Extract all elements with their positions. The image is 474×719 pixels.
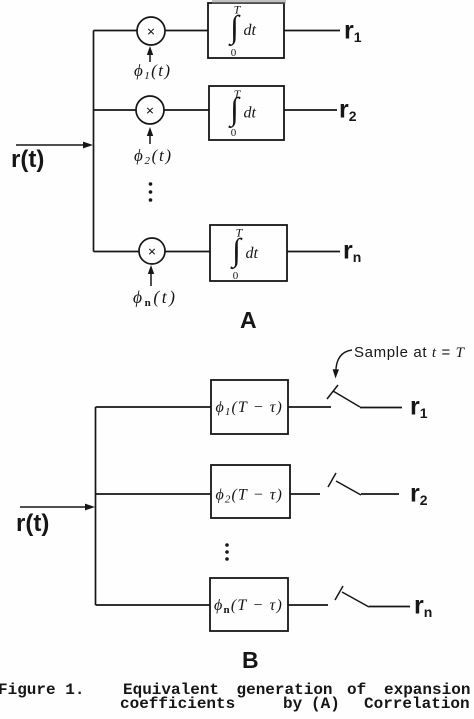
svg-text:A: A bbox=[240, 307, 257, 333]
svg-text:by: by bbox=[283, 695, 303, 713]
wire: M3 to integrator 3 bbox=[165, 251, 210, 253]
node: input bus of B bbox=[95, 407, 97, 605]
wire: bus to multiplier M3 bbox=[94, 251, 140, 253]
svg-text:ϕ2(T − τ): ϕ2(T − τ) bbox=[216, 487, 284, 506]
node: ellipsis dots (B) bbox=[225, 543, 229, 561]
filter box B1 bbox=[211, 380, 288, 434]
wire: bus to filter box B2 bbox=[96, 493, 212, 495]
switch S2 bbox=[328, 473, 361, 495]
svg-text:Correlation: Correlation bbox=[364, 695, 470, 713]
integrator box U2 bbox=[209, 86, 284, 140]
switch S1 bbox=[327, 385, 360, 407]
svg-text:ϕn(t): ϕn(t) bbox=[133, 287, 175, 309]
svg-text:(A): (A) bbox=[311, 695, 340, 713]
node: input bus of A bbox=[93, 31, 95, 252]
svg-text:Sample at t = T: Sample at t = T bbox=[354, 344, 466, 361]
svg-text:r1: r1 bbox=[410, 393, 428, 422]
svg-text:dt: dt bbox=[246, 245, 259, 262]
svg-text:ϕ2(t): ϕ2(t) bbox=[134, 146, 171, 167]
svg-text:0: 0 bbox=[231, 47, 237, 59]
label integral T 0 dt (box 2) bbox=[228, 87, 256, 139]
label integral T 0 dt (box 3) bbox=[230, 226, 258, 283]
wire: phin arrow into M3 bbox=[148, 265, 154, 286]
switch Sn bbox=[335, 586, 369, 607]
wire: box B2 to switch 2 bbox=[290, 493, 320, 495]
node: ellipsis dots (A) bbox=[149, 182, 153, 202]
svg-text:0: 0 bbox=[231, 127, 237, 139]
svg-text:ϕn(T − τ): ϕn(T − τ) bbox=[214, 597, 283, 616]
integrator box U1 bbox=[208, 3, 284, 58]
svg-text:r(t): r(t) bbox=[11, 146, 44, 173]
svg-text:×: × bbox=[148, 245, 157, 261]
label figure caption line 2 bbox=[120, 695, 470, 713]
wire: M1 to integrator 1 bbox=[165, 30, 208, 32]
svg-text:r2: r2 bbox=[410, 480, 428, 509]
wire: bus to filter box Bn bbox=[96, 604, 211, 606]
multiplier M3 bbox=[139, 238, 165, 264]
svg-text:Figure 1.: Figure 1. bbox=[0, 681, 84, 699]
wire: r(t) input arrow (A) bbox=[16, 142, 93, 149]
svg-text:×: × bbox=[147, 25, 156, 41]
multiplier M1 bbox=[137, 17, 165, 45]
svg-text:r1: r1 bbox=[344, 17, 362, 46]
svg-text:ϕ1(t): ϕ1(t) bbox=[134, 61, 170, 82]
wire: integrator 1 output bbox=[284, 30, 340, 32]
wire: box B1 to switch 1 bbox=[288, 406, 331, 408]
wire: switch n output bbox=[369, 606, 410, 608]
svg-text:B: B bbox=[242, 647, 259, 673]
svg-text:coefficients: coefficients bbox=[120, 695, 235, 713]
integrator box U3 bbox=[210, 225, 287, 281]
svg-text:rn: rn bbox=[414, 592, 432, 621]
wire: bus to filter box B1 bbox=[96, 406, 212, 408]
svg-text:r(t): r(t) bbox=[16, 510, 49, 537]
svg-text:ϕ1(T − τ): ϕ1(T − τ) bbox=[216, 399, 284, 418]
wire: M2 to integrator 2 bbox=[164, 109, 209, 111]
wire: phi2 arrow into M2 bbox=[147, 127, 153, 144]
wire: integrator 2 output bbox=[284, 109, 337, 111]
wire: box Bn to switch n bbox=[288, 604, 328, 606]
wire: integrator 3 output bbox=[287, 251, 340, 253]
wire: switch 1 output bbox=[360, 407, 402, 409]
wire: bus to multiplier M2 bbox=[94, 109, 137, 111]
svg-text:×: × bbox=[146, 104, 155, 120]
filter box B2 bbox=[211, 465, 290, 518]
svg-text:rn: rn bbox=[343, 237, 361, 266]
wire: curved arrow from Sample label to switch 1 bbox=[333, 350, 352, 379]
wire: bus to multiplier M1 bbox=[94, 30, 138, 32]
svg-text:0: 0 bbox=[233, 270, 239, 282]
wire: switch 2 output bbox=[361, 493, 399, 495]
label integral T 0 dt (box 1) bbox=[228, 3, 256, 60]
svg-text:dt: dt bbox=[244, 22, 257, 39]
scan smudge above box U1 bbox=[212, 0, 286, 4]
svg-text:r2: r2 bbox=[339, 96, 357, 125]
svg-text:dt: dt bbox=[244, 105, 257, 122]
label figure caption line 1 bbox=[0, 681, 470, 699]
multiplier M2 bbox=[136, 96, 164, 124]
wire: r(t) input arrow (B) bbox=[20, 504, 95, 511]
filter box Bn bbox=[210, 578, 288, 631]
wire: phi1 arrow into M1 bbox=[147, 46, 153, 62]
